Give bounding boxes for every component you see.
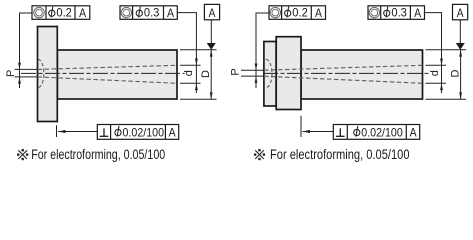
svg-text:0.3: 0.3 — [391, 6, 407, 20]
svg-text:A: A — [457, 6, 464, 20]
svg-text:0.3: 0.3 — [144, 6, 160, 20]
svg-text:A: A — [414, 6, 421, 20]
svg-text:A: A — [79, 6, 86, 20]
svg-text:A: A — [167, 6, 174, 20]
svg-text:0.02/100: 0.02/100 — [123, 125, 165, 139]
svg-text:d: d — [429, 70, 441, 76]
svg-text:A: A — [315, 6, 322, 20]
svg-text:0.02/100: 0.02/100 — [361, 125, 403, 139]
svg-text:For electroforming, 0.05/100: For electroforming, 0.05/100 — [270, 147, 410, 162]
svg-text:D: D — [200, 70, 212, 78]
svg-text:A: A — [410, 125, 417, 139]
svg-text:D: D — [450, 69, 462, 77]
svg-text:P: P — [5, 70, 17, 77]
svg-text:0.2: 0.2 — [292, 6, 308, 20]
svg-text:P: P — [230, 68, 242, 75]
svg-text:A: A — [209, 6, 216, 20]
svg-text:A: A — [169, 125, 176, 139]
svg-text:For electroforming, 0.05/100: For electroforming, 0.05/100 — [31, 147, 165, 162]
svg-text:0.2: 0.2 — [56, 6, 72, 20]
svg-text:d: d — [183, 70, 195, 76]
